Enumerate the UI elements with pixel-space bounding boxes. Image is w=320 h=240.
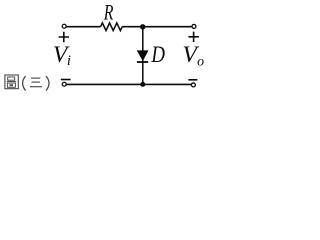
caption close paren [46,76,49,91]
wire diode branch [142,27,144,85]
terminal top-left [62,24,66,28]
plus sign top-left [59,32,69,42]
minus sign bottom-left [61,79,71,81]
svg-text:R: R [103,0,114,25]
diode D [137,51,148,61]
caption glyph 三 [30,78,42,87]
terminal top-right [192,24,196,28]
wire top [66,26,100,28]
plus sign top-right [188,32,198,42]
terminal bottom-right [191,83,195,87]
node bottom junction [140,82,145,87]
resistor R [101,23,123,31]
node top junction [140,24,145,29]
caption open paren [23,76,26,91]
caption glyph 圖 [5,75,18,89]
svg-text:i: i [67,53,71,69]
svg-text:D: D [151,42,166,67]
wire bottom [66,83,191,85]
terminal bottom-left [62,82,66,86]
minus sign bottom-right [188,79,197,81]
wire top-right [122,26,192,28]
svg-text:o: o [197,55,204,70]
